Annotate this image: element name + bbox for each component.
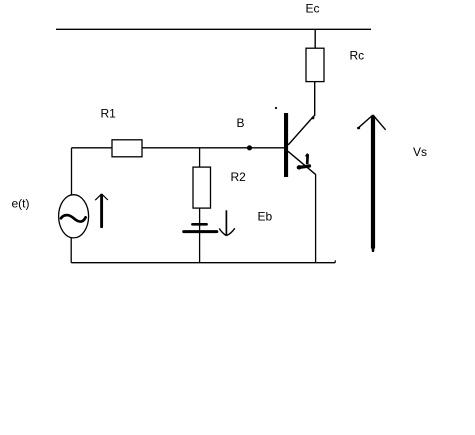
wire Rc to collector bbox=[288, 82, 315, 145]
transistor Q1 base bar bbox=[284, 113, 288, 177]
emitter arrow (hand drawn) bbox=[297, 154, 309, 170]
resistor R2 bbox=[193, 167, 211, 208]
arrow Vs output bbox=[358, 115, 385, 251]
wire emitter diagonal bbox=[288, 151, 316, 175]
wire R2 to bottom rail bbox=[199, 208, 201, 263]
wire base node to R2 bbox=[199, 148, 201, 167]
node B junction dot bbox=[247, 145, 252, 150]
svg-text:R2: R2 bbox=[231, 170, 247, 184]
svg-text:e(t): e(t) bbox=[12, 197, 30, 211]
wire rail to Rc bbox=[314, 29, 316, 48]
source sine squiggle bbox=[61, 215, 86, 221]
svg-text:Ec: Ec bbox=[306, 2, 320, 16]
resistor Rc bbox=[306, 48, 324, 81]
collector bend knee blob bbox=[312, 117, 315, 120]
wire corner down to source bbox=[71, 148, 73, 195]
resistor R1 bbox=[112, 140, 142, 157]
arrow down beside battery bbox=[219, 210, 235, 235]
battery Eb plate long bbox=[184, 230, 217, 233]
wire bottom rail bbox=[71, 262, 335, 264]
svg-text:Eb: Eb bbox=[258, 210, 273, 224]
wire R1 left to corner bbox=[72, 147, 113, 149]
source e(t) ellipse bbox=[59, 195, 89, 238]
stray dot mark bbox=[275, 107, 277, 109]
bottom rail end tick bbox=[334, 260, 336, 263]
svg-text:Rc: Rc bbox=[350, 49, 365, 63]
svg-text:Vs: Vs bbox=[413, 145, 427, 159]
svg-text:B: B bbox=[237, 116, 245, 130]
wire emitter to bottom rail bbox=[315, 175, 317, 263]
wire base bbox=[142, 147, 284, 149]
battery Eb plate short bbox=[192, 223, 206, 226]
wire top supply rail bbox=[56, 28, 371, 30]
arrow up beside source bbox=[95, 194, 108, 227]
wire source to bottom rail bbox=[70, 238, 72, 263]
svg-text:R1: R1 bbox=[101, 107, 117, 121]
